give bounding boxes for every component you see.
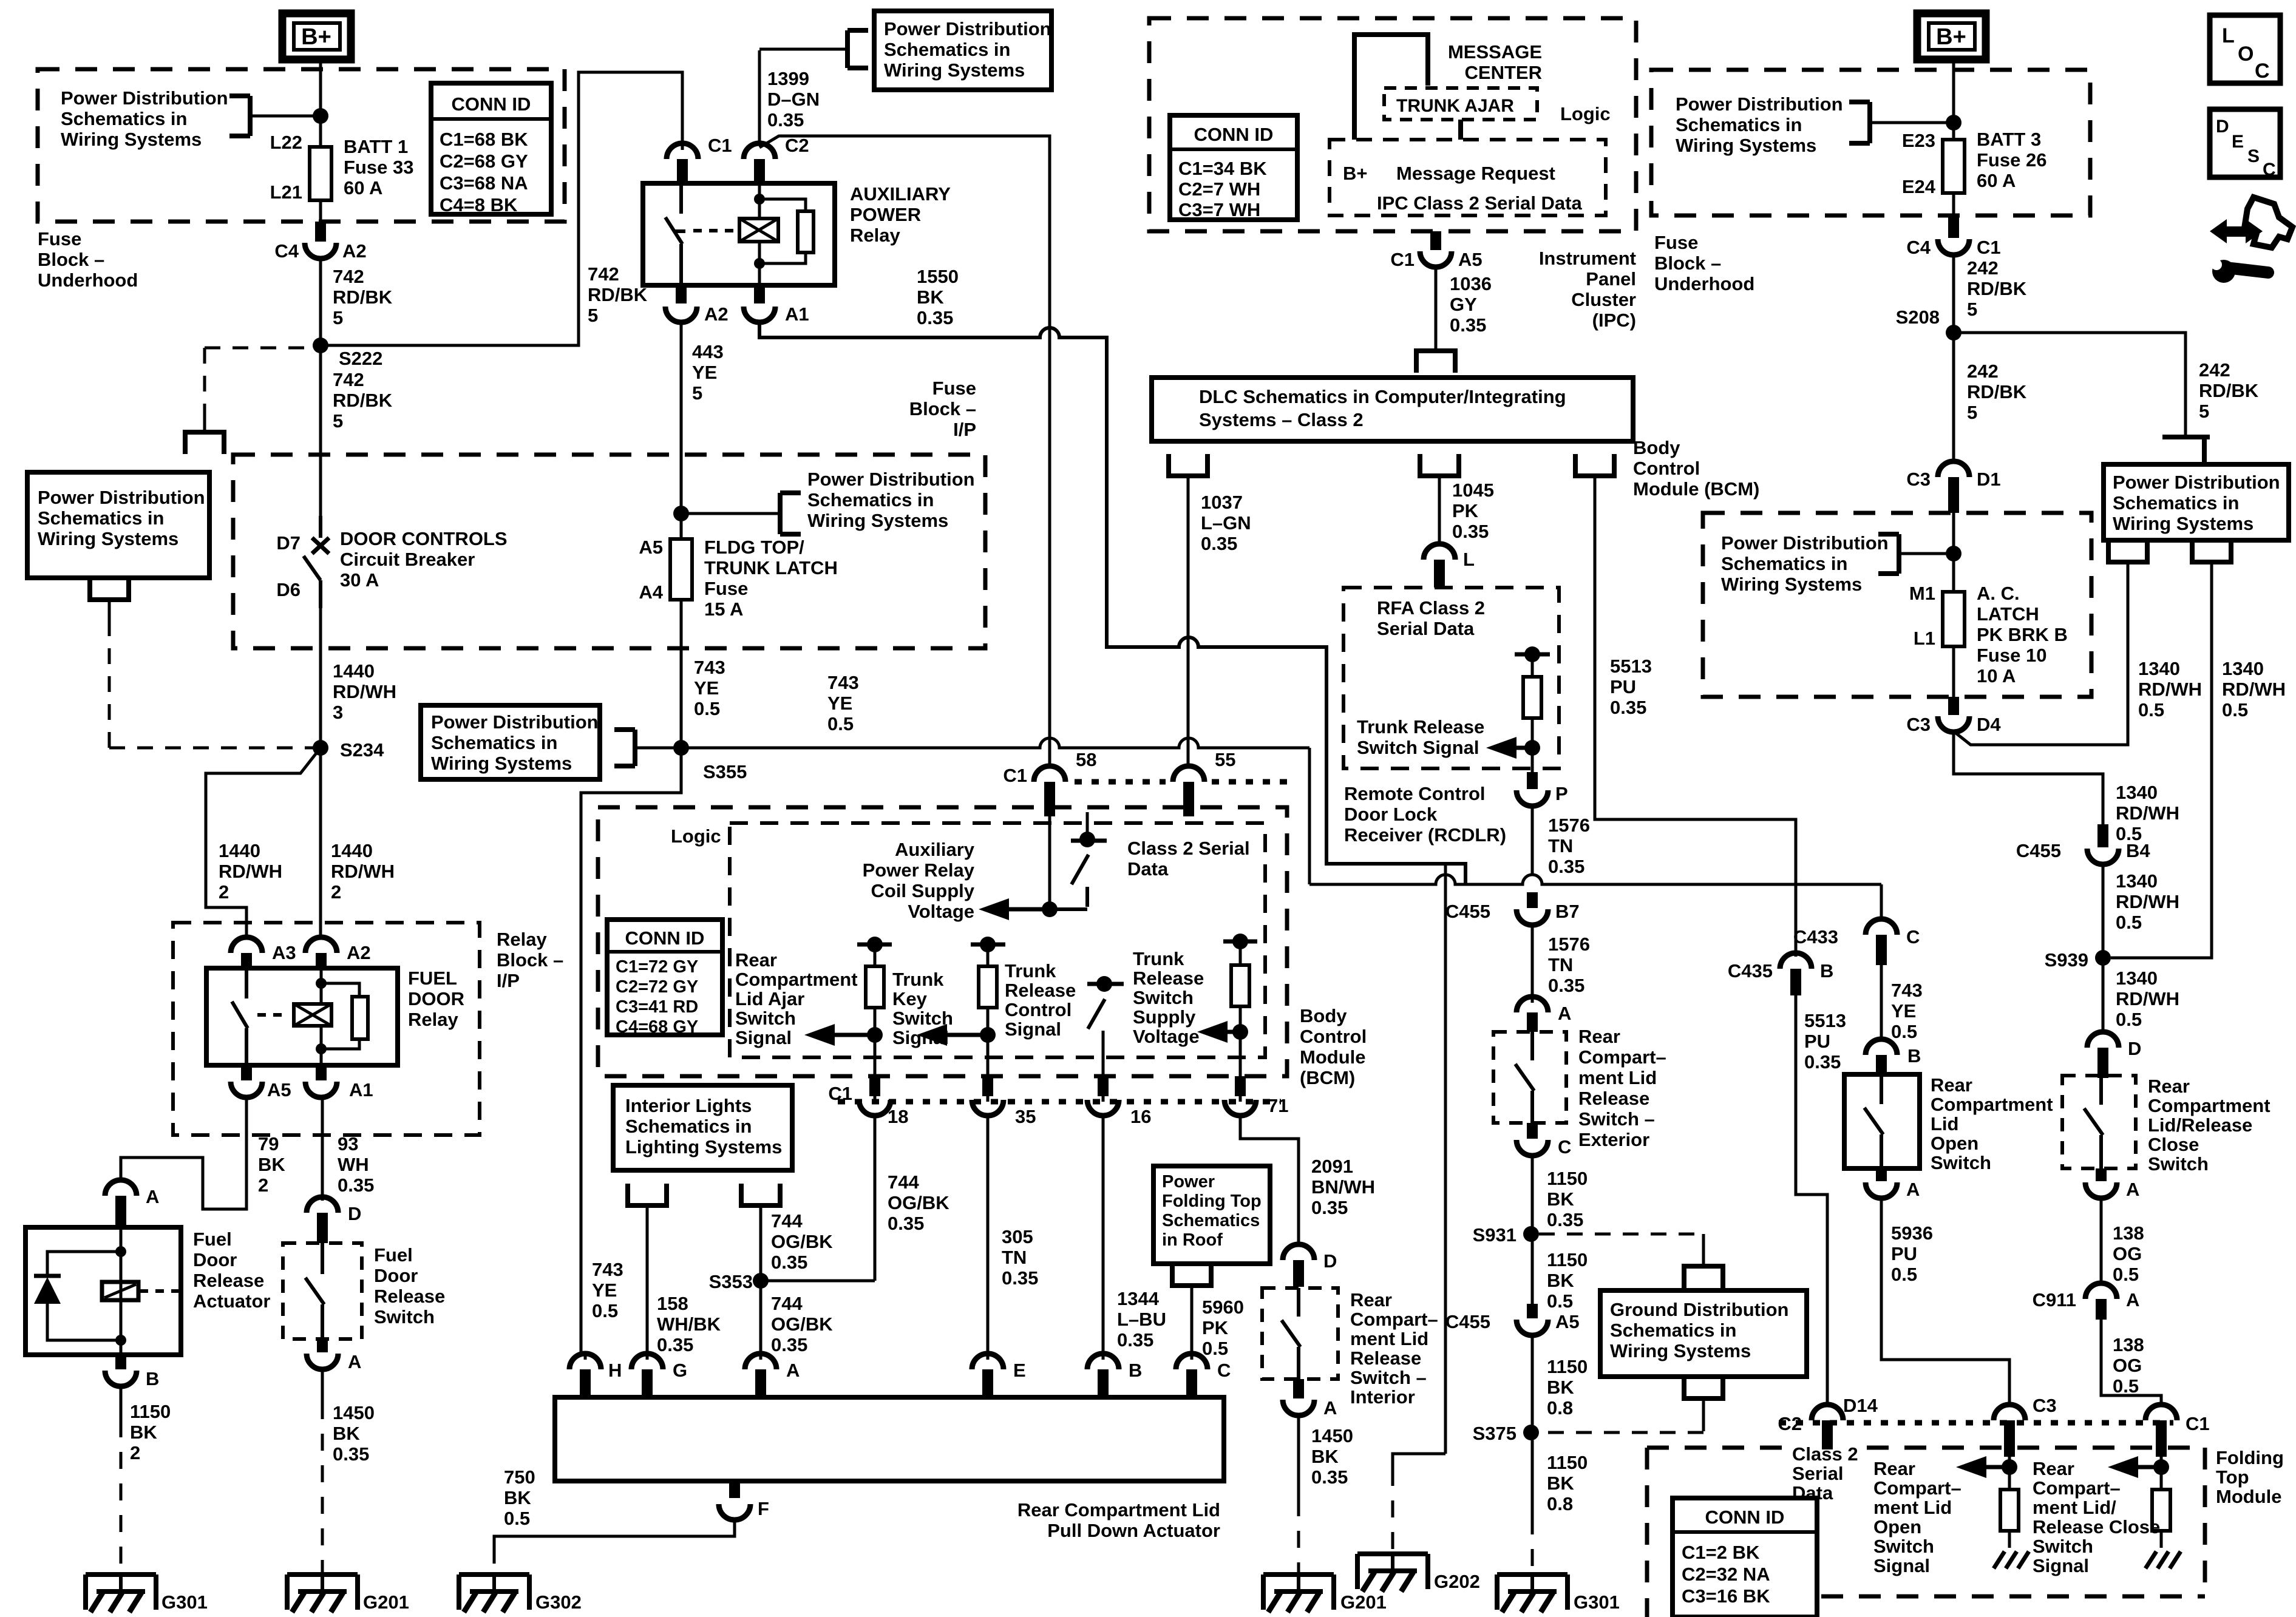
svg-text:Schematics in: Schematics in — [1721, 553, 1847, 574]
svg-text:0.5: 0.5 — [1202, 1338, 1228, 1359]
connector C3 (module) — [1994, 1405, 2025, 1420]
wire 93 WH relay A1 to release switch D — [321, 1097, 324, 1201]
reference bracket below right box 2 — [2192, 540, 2231, 562]
svg-text:Wiring Systems: Wiring Systems — [807, 510, 948, 531]
svg-text:CONN ID: CONN ID — [1194, 124, 1274, 145]
svg-text:Class 2 Serial: Class 2 Serial — [1127, 838, 1250, 859]
svg-text:RD/BK: RD/BK — [588, 284, 648, 305]
svg-text:MESSAGE: MESSAGE — [1448, 41, 1542, 63]
svg-text:B+: B+ — [1936, 24, 1966, 50]
svg-text:PK: PK — [1202, 1317, 1229, 1338]
svg-text:C1=68 BK: C1=68 BK — [440, 129, 528, 150]
svg-text:Schematics in: Schematics in — [625, 1116, 752, 1137]
svg-text:Wiring Systems: Wiring Systems — [884, 59, 1025, 81]
wire L1 to C3 D4 — [1952, 646, 1955, 697]
svg-text:Fuse: Fuse — [932, 378, 976, 399]
fuse FLDG TOP/TRUNK LATCH 15A — [670, 539, 692, 600]
svg-text:744: 744 — [888, 1171, 919, 1193]
svg-text:BK: BK — [258, 1154, 285, 1175]
svg-text:WH/BK: WH/BK — [657, 1314, 721, 1335]
svg-text:F: F — [758, 1498, 769, 1519]
reference bracket below ground dist box — [1684, 1377, 1723, 1398]
svg-text:93: 93 — [338, 1133, 358, 1154]
connector A (fuel door release switch) — [317, 1339, 328, 1352]
svg-text:Voltage: Voltage — [908, 901, 974, 922]
svg-text:Logic: Logic — [671, 825, 721, 847]
svg-text:Switch: Switch — [1873, 1536, 1934, 1557]
svg-text:Schematics in: Schematics in — [884, 39, 1010, 60]
svg-text:PU: PU — [1610, 676, 1636, 697]
svg-text:1550: 1550 — [917, 266, 959, 287]
svg-text:CONN ID: CONN ID — [1705, 1507, 1785, 1528]
svg-text:18: 18 — [888, 1106, 908, 1127]
conn id table (IPC) — [1170, 115, 1297, 220]
svg-text:C2: C2 — [1778, 1413, 1802, 1434]
wire B7 to A — [1531, 925, 1534, 1003]
svg-text:2: 2 — [219, 881, 229, 903]
svg-text:0.5: 0.5 — [827, 713, 854, 734]
svg-text:0.5: 0.5 — [1891, 1264, 1917, 1285]
dashed box TRUNK AJAR — [1384, 88, 1537, 120]
svg-text:Folding Top: Folding Top — [1162, 1192, 1262, 1211]
svg-text:0.35: 0.35 — [1117, 1329, 1153, 1351]
svg-text:35: 35 — [1015, 1106, 1036, 1127]
svg-text:OG/BK: OG/BK — [771, 1231, 833, 1252]
svg-text:0.35: 0.35 — [1804, 1051, 1841, 1073]
svg-text:BN/WH: BN/WH — [1311, 1176, 1375, 1198]
icon box LOC — [2210, 15, 2280, 83]
svg-text:Power: Power — [1162, 1172, 1215, 1192]
svg-text:Fuel: Fuel — [374, 1244, 413, 1266]
svg-text:15 A: 15 A — [704, 598, 743, 620]
svg-text:Module: Module — [2216, 1486, 2282, 1507]
circuit breaker DOOR CONTROLS 30A (D7/D6) — [319, 516, 322, 538]
svg-text:A5: A5 — [1555, 1311, 1580, 1332]
svg-text:1576: 1576 — [1548, 934, 1590, 955]
svg-text:YE: YE — [592, 1280, 617, 1301]
svg-text:Signal: Signal — [2033, 1555, 2089, 1576]
wire RFA to P connector — [1531, 748, 1534, 772]
svg-text:Release: Release — [193, 1270, 264, 1291]
svg-text:Fuse: Fuse — [38, 228, 81, 249]
arrow rear compartment lid ajar switch signal — [804, 1024, 835, 1046]
svg-text:Rear: Rear — [2033, 1458, 2074, 1479]
svg-text:1150: 1150 — [1547, 1356, 1588, 1377]
svg-text:Block –: Block – — [38, 249, 104, 270]
svg-text:0.35: 0.35 — [1311, 1466, 1348, 1488]
wire B+ right to fuse BATT3 — [1952, 59, 1955, 140]
svg-text:Module: Module — [1300, 1046, 1366, 1068]
svg-text:C4=8 BK: C4=8 BK — [440, 194, 518, 215]
connector A1 (aux power relay) — [754, 285, 765, 303]
svg-text:C1=34 BK: C1=34 BK — [1178, 158, 1267, 179]
svg-text:I/P: I/P — [953, 419, 976, 440]
svg-text:RD/BK: RD/BK — [1967, 278, 2027, 299]
svg-text:B: B — [1907, 1045, 1921, 1066]
svg-text:BK: BK — [917, 286, 944, 308]
svg-text:Signal: Signal — [1005, 1019, 1061, 1040]
connector F (actuator) — [729, 1481, 740, 1498]
fuel door release switch blade — [321, 1243, 324, 1274]
svg-text:C1: C1 — [2186, 1413, 2210, 1434]
svg-text:C2: C2 — [785, 135, 809, 156]
actuator internal wire with nodes — [120, 1227, 123, 1355]
dashed box Relay Block - I/P — [173, 923, 480, 1135]
svg-text:0.8: 0.8 — [1547, 1397, 1573, 1419]
svg-text:2: 2 — [130, 1442, 140, 1463]
svg-text:Systems – Class 2: Systems – Class 2 — [1199, 409, 1364, 430]
svg-text:D: D — [348, 1203, 361, 1224]
svg-text:Rear Compartment Lid: Rear Compartment Lid — [1017, 1499, 1220, 1520]
connector A (rear lid release switch exterior) — [1517, 997, 1548, 1012]
svg-text:C3: C3 — [1906, 469, 1931, 490]
svg-text:C455: C455 — [1445, 901, 1490, 922]
svg-text:C1: C1 — [1977, 237, 2001, 258]
svg-text:Interior Lights: Interior Lights — [625, 1095, 752, 1116]
svg-text:10 A: 10 A — [1977, 665, 2016, 686]
wire 158 WH/BK to actuator G — [646, 1226, 649, 1352]
svg-text:750: 750 — [504, 1466, 535, 1488]
svg-text:Release: Release — [374, 1286, 445, 1307]
svg-text:Data: Data — [1127, 858, 1169, 880]
dotted connector line 58/55 — [1075, 779, 1166, 785]
svg-text:G202: G202 — [1434, 1571, 1480, 1592]
connector C1 (aux power relay) — [667, 143, 698, 159]
aux relay coil — [739, 219, 778, 242]
wire S208 down to C3 D1 — [1952, 333, 1955, 461]
svg-text:Signal: Signal — [1873, 1555, 1930, 1576]
svg-text:305: 305 — [1002, 1226, 1033, 1247]
svg-text:L–GN: L–GN — [1201, 512, 1251, 534]
svg-text:Logic: Logic — [1560, 103, 1611, 124]
svg-text:1440: 1440 — [219, 840, 260, 861]
dashed box rear compartment lid release switch exterior — [1493, 1032, 1566, 1123]
wire 742 S222 to relay C1 feed — [321, 72, 682, 345]
svg-text:A5: A5 — [267, 1079, 291, 1100]
reference bracket below power dist box (left) — [90, 578, 129, 600]
svg-text:Block –: Block – — [909, 398, 976, 419]
aux relay switch — [679, 183, 683, 214]
svg-text:A: A — [1906, 1179, 1920, 1200]
svg-text:1340: 1340 — [2116, 968, 2158, 989]
svg-text:0.35: 0.35 — [1201, 533, 1237, 554]
svg-text:Key: Key — [892, 988, 928, 1009]
svg-text:RD/BK: RD/BK — [2199, 380, 2259, 401]
svg-text:Block –: Block – — [1654, 253, 1721, 274]
reference bracket above ground dist box — [1684, 1266, 1723, 1288]
svg-text:O: O — [2238, 42, 2254, 66]
svg-text:Signal: Signal — [735, 1027, 792, 1048]
svg-text:Schematics in: Schematics in — [61, 108, 187, 129]
svg-text:0.5: 0.5 — [694, 698, 720, 719]
svg-text:PU: PU — [1804, 1031, 1830, 1052]
svg-text:Body: Body — [1300, 1005, 1347, 1026]
relay box FUEL DOOR Relay — [206, 968, 398, 1065]
connector P (RCDLR) — [1517, 790, 1548, 806]
svg-text:OG: OG — [2113, 1355, 2142, 1376]
svg-text:TN: TN — [1548, 954, 1573, 975]
svg-text:C455: C455 — [2016, 840, 2061, 861]
svg-text:1045: 1045 — [1452, 480, 1494, 501]
svg-text:1340: 1340 — [2222, 658, 2264, 679]
dashed wire S931 to ground dist box — [1539, 1233, 1703, 1236]
dashed box BCM outer — [598, 807, 1287, 1076]
svg-text:Fuel: Fuel — [193, 1229, 232, 1250]
svg-text:55: 55 — [1215, 749, 1235, 770]
svg-text:Control: Control — [1633, 458, 1700, 479]
wire power dist leg 2 to S939 — [2111, 583, 2212, 958]
svg-text:5936: 5936 — [1891, 1222, 1933, 1244]
node junction 443 wire to bracket — [673, 506, 689, 521]
svg-text:Ground Distribution: Ground Distribution — [1610, 1299, 1788, 1320]
svg-text:Schematics in: Schematics in — [38, 507, 164, 529]
connector A5 (fuel door relay) — [241, 1065, 252, 1080]
svg-text:Folding: Folding — [2216, 1447, 2284, 1468]
node S353 — [753, 1273, 769, 1289]
dashed box instrument panel cluster — [1149, 18, 1636, 231]
svg-text:GY: GY — [1450, 294, 1477, 315]
svg-text:S931: S931 — [1473, 1224, 1517, 1246]
svg-text:L: L — [2222, 24, 2235, 47]
dashed wire ground dist box to S375 — [1702, 1419, 1705, 1432]
box fuel door release actuator — [25, 1227, 181, 1355]
svg-text:E: E — [2232, 132, 2244, 152]
svg-text:1440: 1440 — [331, 840, 373, 861]
wire junction to reference bracket — [250, 115, 317, 118]
reference bracket DLC leg 2 — [1420, 454, 1459, 476]
connector D (fuel door release switch) — [307, 1197, 338, 1213]
node S375 — [1523, 1425, 1539, 1440]
node junction on B+ wire — [313, 108, 328, 124]
dashed box RFA — [1343, 588, 1559, 768]
svg-text:B+: B+ — [301, 24, 331, 50]
svg-text:(IPC): (IPC) — [1592, 310, 1636, 331]
svg-text:Door: Door — [193, 1249, 237, 1270]
svg-text:RFA Class 2: RFA Class 2 — [1377, 597, 1485, 619]
svg-text:RD/BK: RD/BK — [333, 286, 393, 308]
svg-text:Lid: Lid — [1931, 1113, 1959, 1134]
svg-text:1340: 1340 — [2116, 870, 2158, 892]
svg-text:16: 16 — [1130, 1106, 1151, 1127]
connector A2 (aux power relay) — [676, 285, 687, 303]
svg-text:Wiring Systems: Wiring Systems — [1721, 574, 1862, 595]
svg-text:5: 5 — [333, 307, 343, 328]
wire 305 TN pin35 to actuator E — [987, 1116, 990, 1352]
svg-text:138: 138 — [2113, 1334, 2144, 1355]
svg-text:FUEL: FUEL — [408, 968, 457, 989]
solid box Power Distribution Schematics (right) — [2104, 464, 2289, 540]
svg-text:B: B — [1820, 960, 1833, 981]
wire S375 to ground G301 right — [1531, 1432, 1534, 1517]
resistor trunk release switch supply voltage (pin 71) — [1223, 940, 1257, 944]
svg-text:Power Distribution: Power Distribution — [431, 711, 599, 733]
svg-text:BK: BK — [504, 1487, 531, 1508]
svg-text:Module (BCM): Module (BCM) — [1633, 478, 1759, 500]
wire C435 B to D14 — [1796, 995, 1827, 1405]
ground small (C1 signal) — [2145, 1551, 2156, 1568]
svg-text:Underhood: Underhood — [38, 269, 138, 291]
resistor trunk release control (pin 35) — [971, 943, 1005, 947]
svg-text:0.35: 0.35 — [888, 1213, 924, 1234]
fuel door relay link dashed — [257, 1013, 289, 1017]
svg-text:D4: D4 — [1977, 714, 2001, 735]
solid box Power Distribution Schematics (left mid) — [27, 472, 209, 578]
svg-text:0.35: 0.35 — [1450, 314, 1486, 336]
svg-text:1150: 1150 — [1547, 1452, 1588, 1473]
wire A5 to S375 — [1531, 1335, 1534, 1432]
connector A2 (fuel door relay) — [305, 937, 337, 953]
svg-text:Switch –: Switch – — [1350, 1367, 1427, 1388]
svg-text:DOOR: DOOR — [408, 988, 464, 1009]
connector A1 (fuel door relay) — [316, 1065, 327, 1080]
box rear compartment lid pull down actuator — [555, 1397, 1224, 1481]
svg-text:0.35: 0.35 — [1311, 1197, 1348, 1218]
svg-text:A2: A2 — [704, 303, 729, 325]
svg-text:D: D — [2128, 1038, 2141, 1059]
signal rear compartment lid open switch signal — [2002, 1459, 2017, 1475]
svg-text:1150: 1150 — [1547, 1249, 1588, 1270]
wire 1037 L-GN DLC to BCM 55 — [1187, 497, 1190, 766]
svg-text:C4=68 GY: C4=68 GY — [616, 1017, 698, 1037]
svg-text:A1: A1 — [349, 1079, 373, 1100]
connector C4/A2 below BATT1 fuse — [315, 222, 326, 242]
svg-text:M1: M1 — [1909, 583, 1935, 604]
svg-text:RD/WH: RD/WH — [219, 861, 282, 882]
switch trunk release (pin 16) — [1087, 982, 1124, 986]
svg-text:Underhood: Underhood — [1654, 273, 1754, 294]
svg-text:D: D — [2216, 117, 2229, 137]
svg-text:Switch Signal: Switch Signal — [1357, 737, 1479, 758]
arrow trunk release control signal — [917, 1024, 947, 1046]
icon navigation arrows — [2210, 219, 2227, 243]
svg-text:0.35: 0.35 — [1452, 521, 1489, 542]
wire D4 down to C455 B4 — [1954, 732, 2103, 824]
conn id table (fuse block underhood) — [431, 83, 551, 214]
svg-text:743: 743 — [694, 657, 725, 678]
svg-text:Control: Control — [1300, 1026, 1367, 1047]
svg-text:Wiring Systems: Wiring Systems — [38, 528, 178, 549]
svg-text:Wiring Systems: Wiring Systems — [1676, 135, 1816, 156]
svg-text:3: 3 — [333, 702, 343, 723]
junction aux coil supply — [1042, 901, 1058, 917]
svg-text:79: 79 — [258, 1133, 279, 1154]
svg-text:5: 5 — [588, 305, 598, 326]
connector B (actuator) — [1102, 1352, 1105, 1360]
svg-text:Wiring Systems: Wiring Systems — [1610, 1340, 1751, 1361]
reference bracket DLC leg 1 — [1169, 454, 1207, 476]
svg-text:1450: 1450 — [1311, 1425, 1353, 1446]
svg-text:Power Distribution: Power Distribution — [884, 18, 1051, 39]
wire 5513 PU DLC to C435 — [1595, 497, 1796, 957]
svg-text:Compart–: Compart– — [1350, 1309, 1438, 1330]
dashed box rear compartment lid release close switch — [2062, 1076, 2136, 1168]
wire P to C455 B7 — [1531, 806, 1534, 875]
svg-text:58: 58 — [1076, 749, 1096, 770]
connector G (actuator) — [646, 1352, 649, 1360]
svg-text:G301: G301 — [161, 1592, 208, 1613]
svg-text:A: A — [2126, 1179, 2139, 1200]
connector E (actuator) — [987, 1352, 990, 1360]
svg-text:OG/BK: OG/BK — [888, 1192, 949, 1213]
svg-text:L1: L1 — [1914, 628, 1935, 649]
solid box Power Distribution Schematics (top center) — [874, 11, 1051, 90]
svg-text:G301: G301 — [1574, 1592, 1620, 1613]
wire IPC A5 to DLC — [1435, 267, 1438, 333]
connector A (rear lid open switch) — [1876, 1168, 1887, 1181]
svg-text:Relay: Relay — [408, 1009, 458, 1030]
svg-text:Power Distribution: Power Distribution — [807, 469, 975, 490]
svg-text:0.5: 0.5 — [2138, 699, 2164, 720]
svg-text:Voltage: Voltage — [1133, 1026, 1200, 1047]
svg-text:RD/WH: RD/WH — [2222, 679, 2286, 700]
connector C1/58 (BCM top) — [1034, 766, 1065, 782]
connector C3/D4 — [1948, 697, 1959, 715]
svg-text:RD/WH: RD/WH — [333, 681, 396, 702]
connector C2/D14 — [1812, 1405, 1843, 1420]
wire C911 down — [2100, 1320, 2103, 1395]
solid box DLC Schematics — [1152, 378, 1633, 441]
reference bracket above power dist box (left) — [185, 432, 224, 454]
svg-text:C2=68 GY: C2=68 GY — [440, 151, 528, 172]
svg-text:158: 158 — [657, 1293, 688, 1314]
svg-text:ment Lid/: ment Lid/ — [2033, 1497, 2116, 1518]
svg-text:Trunk: Trunk — [892, 969, 944, 990]
svg-text:Body: Body — [1633, 437, 1680, 458]
svg-text:2: 2 — [331, 881, 341, 903]
svg-text:5: 5 — [1967, 299, 1977, 320]
svg-text:B: B — [146, 1368, 159, 1389]
fuse BATT 1 Fuse 33 60A — [310, 147, 331, 200]
dashed wire to ground G201 (mid) — [1297, 1415, 1300, 1499]
wire breaker to S234 — [319, 608, 322, 748]
svg-text:Rear: Rear — [1578, 1026, 1620, 1047]
svg-text:DLC Schematics in Computer/Int: DLC Schematics in Computer/Integrating — [1199, 386, 1566, 407]
connector D (rear lid release close switch) — [2087, 1032, 2119, 1048]
rfa resistor circuit trunk release switch signal — [1515, 653, 1550, 657]
svg-text:B: B — [1129, 1360, 1142, 1381]
wire B4 to S939 — [2102, 864, 2105, 1032]
svg-text:WH: WH — [338, 1154, 369, 1175]
wire C4C1 to S208 — [1952, 255, 1955, 333]
svg-text:Schematics: Schematics — [1162, 1211, 1260, 1230]
svg-text:RD/BK: RD/BK — [1967, 381, 2027, 402]
svg-text:0.35: 0.35 — [1002, 1267, 1038, 1289]
stub trunk ajar to logic box — [1458, 120, 1463, 140]
svg-text:C3=41 RD: C3=41 RD — [616, 997, 698, 1017]
svg-text:C2=7 WH: C2=7 WH — [1178, 178, 1260, 200]
svg-text:A: A — [2126, 1289, 2139, 1310]
node S355 — [673, 740, 689, 756]
ground G201 (mid) — [1263, 1572, 1334, 1577]
dashed box fuel door release switch — [283, 1243, 362, 1339]
svg-text:BK: BK — [333, 1423, 360, 1444]
svg-text:C: C — [1906, 926, 1920, 947]
icon box DESC — [2210, 109, 2280, 177]
connector A (actuator) — [759, 1352, 763, 1360]
arrow trunk release switch signal (RFA) — [1486, 737, 1517, 759]
svg-text:C2=72 GY: C2=72 GY — [616, 977, 698, 997]
wire B+ to fuse BATT 1 — [319, 59, 322, 147]
reference bracket S355 power dist box — [614, 727, 635, 732]
connector C433/C — [1866, 919, 1897, 935]
svg-text:138: 138 — [2113, 1222, 2144, 1244]
dashed box rear compartment lid release switch interior — [1262, 1288, 1338, 1379]
svg-text:Rear: Rear — [2148, 1076, 2190, 1097]
svg-text:Serial: Serial — [1792, 1463, 1843, 1484]
relay box AUXILIARY POWER Relay — [643, 183, 835, 285]
svg-text:RD/WH: RD/WH — [2116, 988, 2179, 1009]
svg-text:YE: YE — [694, 677, 719, 699]
